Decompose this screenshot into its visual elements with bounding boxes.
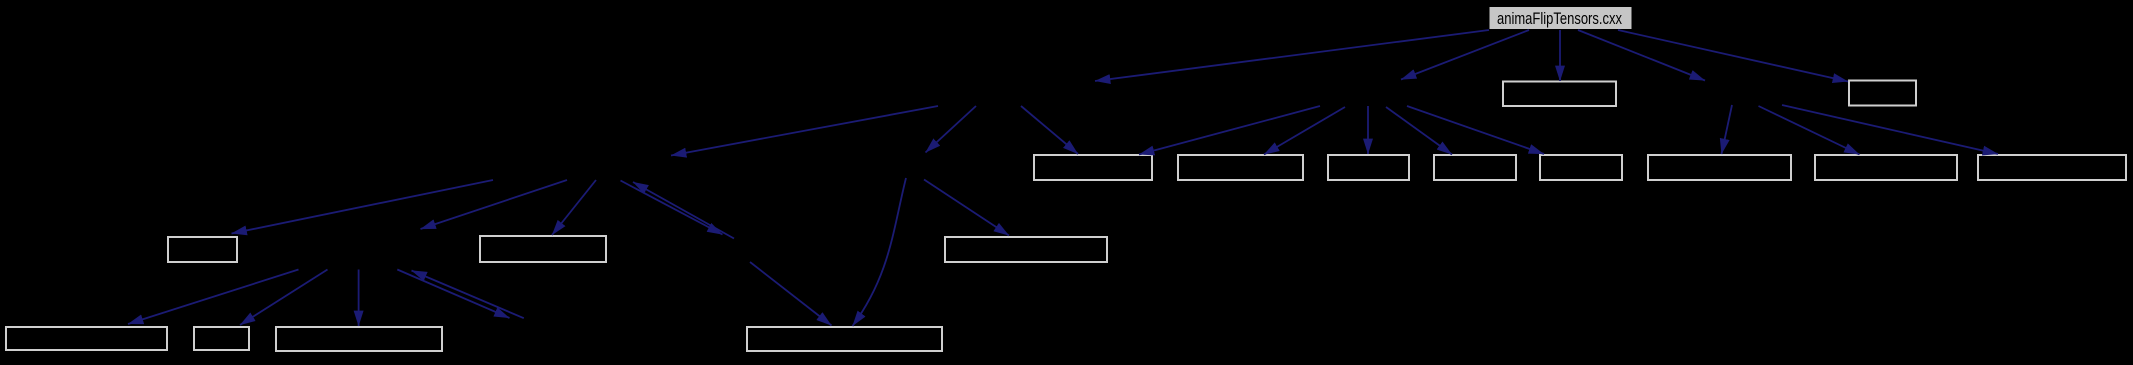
node L0 xyxy=(168,237,237,262)
node Q7 xyxy=(1815,155,1957,180)
node T animaFlipTensors.cxx xyxy=(1489,7,1632,30)
edge T to A xyxy=(1559,30,1561,81)
edge hubB to Q1 xyxy=(1021,106,1078,154)
node Q6 xyxy=(1648,155,1791,180)
node Q1 xyxy=(1034,155,1152,180)
edge hubE to Q5 xyxy=(1407,106,1544,154)
edge hubE to Q1 xyxy=(1139,106,1320,155)
node L2 xyxy=(194,327,249,350)
edge T to hubE xyxy=(1401,30,1529,80)
edge hub1 to hub2 xyxy=(421,180,568,229)
edge T to hubF xyxy=(1578,30,1705,81)
edge hub1 to R2 xyxy=(552,180,596,235)
edge hubE to Q2 xyxy=(1264,107,1345,155)
edge hub4 to M curved xyxy=(853,178,907,326)
edge hub2 to L2 xyxy=(240,270,328,326)
edge hub3 to M xyxy=(750,262,832,326)
node Q5 xyxy=(1540,155,1622,180)
edge hub2 to L3 xyxy=(358,270,360,327)
edge hub4 to R3 xyxy=(924,180,1009,236)
node Q4 xyxy=(1434,155,1516,180)
node R2 xyxy=(480,236,606,262)
edge hubB to hub1 xyxy=(671,106,938,156)
node L3 xyxy=(276,327,442,351)
node A xyxy=(1503,82,1616,107)
edge hub3 to hub1 xyxy=(633,182,734,239)
edge hubB to hub4 xyxy=(926,106,977,153)
node Q3 xyxy=(1328,155,1409,180)
edge hubF to Q7 xyxy=(1759,106,1860,155)
node M xyxy=(747,327,942,351)
edge hub1 to L0 xyxy=(232,180,494,234)
edge hub1 to hub3 xyxy=(621,181,723,235)
edge hubE to Q3 xyxy=(1367,106,1369,154)
edge hub2 to hubD xyxy=(397,270,509,319)
node Q8 xyxy=(1978,155,2126,180)
edge hubD to hub2 xyxy=(412,271,524,319)
node Q2 xyxy=(1178,155,1303,180)
edge hubE to Q4 xyxy=(1386,107,1452,155)
svg-text:animaFlipTensors.cxx: animaFlipTensors.cxx xyxy=(1497,10,1623,28)
edge hub2 to L1 xyxy=(128,270,299,325)
edge hubF to Q6 xyxy=(1722,105,1733,154)
edge T to B xyxy=(1618,30,1848,82)
node B xyxy=(1849,81,1916,106)
node L1 xyxy=(6,327,167,350)
node R3 xyxy=(945,237,1107,262)
edge hubF to Q8 xyxy=(1782,105,1998,154)
edge T to hubB xyxy=(1095,30,1489,81)
